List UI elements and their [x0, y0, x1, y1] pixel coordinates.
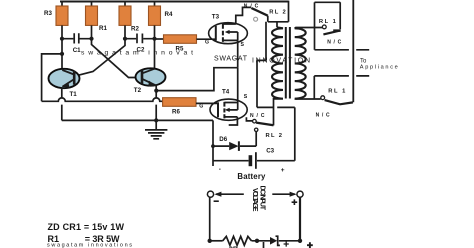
wire: dc loop left vertical	[209, 197, 211, 240]
node: bottom right	[298, 239, 302, 243]
label plus at dc input	[292, 199, 298, 205]
svg-text:R1: R1	[99, 25, 107, 32]
relay RL2 top throw contact	[254, 17, 258, 21]
relay RL1 top blade	[323, 30, 340, 34]
svg-text:T1: T1	[70, 91, 78, 98]
svg-text:S: S	[244, 94, 248, 100]
label bold plus (cut)	[307, 242, 313, 248]
mosfet T3	[209, 23, 248, 44]
svg-text:R3: R3	[44, 10, 52, 17]
mosfet T4	[210, 99, 247, 120]
wire: emitters to mosfet sources link	[156, 68, 237, 91]
svg-text:N/C: N/C	[327, 39, 341, 45]
svg-text:N/C: N/C	[244, 3, 259, 9]
svg-text:R6: R6	[172, 109, 180, 116]
node: R2/C2 junction	[123, 37, 127, 41]
dc input terminal left	[207, 191, 213, 197]
relay RL1 top pole contact	[322, 25, 326, 29]
wire: ground rail	[62, 119, 213, 121]
resistor R6	[163, 98, 196, 107]
node: R4/C2/R5 junction	[152, 37, 156, 41]
svg-text:RL 2: RL 2	[266, 133, 283, 139]
dc input terminal right	[297, 191, 303, 197]
wire: cross-coupling R2 to T1 base	[76, 39, 125, 76]
wire: RL2 top blade end drop	[267, 16, 269, 22]
svg-text:G: G	[199, 103, 203, 109]
svg-text:D6: D6	[219, 136, 227, 143]
svg-text:DC INPUT: DC INPUT	[258, 186, 265, 211]
svg-text:C3: C3	[266, 147, 274, 154]
resistor R5	[155, 38, 164, 40]
node: ground junction	[154, 118, 158, 122]
svg-text:VOLTAGE: VOLTAGE	[251, 188, 258, 212]
svg-text:S: S	[241, 42, 245, 48]
wire: battery right riser	[277, 107, 295, 160]
wire: T4 to RL2 bottom pole	[246, 117, 252, 121]
node: T1 collector feedback junction	[60, 52, 64, 56]
svg-text:N/C: N/C	[316, 112, 330, 118]
wire: supply-to-primary link	[268, 22, 289, 28]
resistor R1	[91, 2, 93, 7]
wire: T1 emitter down through hop	[61, 88, 63, 121]
svg-text:Battery: Battery	[237, 172, 266, 181]
capacitor C1	[62, 38, 92, 40]
dc input arrow right	[272, 193, 295, 195]
node: R1/C1 junction	[89, 37, 93, 41]
wire: RL1 top N/C bridge	[315, 2, 341, 29]
wire: T4 drain step stub	[229, 117, 238, 125]
svg-text:RL 1: RL 1	[328, 89, 346, 95]
relay RL2 bottom blade	[256, 123, 273, 126]
transistor T2	[136, 68, 166, 85]
svg-text:RL 2: RL 2	[269, 10, 286, 16]
wire: T2 emitter down through hop	[155, 86, 157, 121]
relay RL1 bottom pole contact	[321, 96, 325, 100]
node: zigzag left	[208, 239, 212, 243]
wire: cut-off stub below rail	[263, 242, 265, 248]
svg-text:Appliance: Appliance	[360, 65, 398, 71]
svg-text:SWAGAT: SWAGAT	[214, 56, 248, 63]
svg-text:N/C: N/C	[250, 113, 265, 119]
svg-text:T3: T3	[212, 14, 220, 21]
svg-text:ZD CR1 = 15v 1W: ZD CR1 = 15v 1W	[48, 222, 125, 232]
wire: cross-coupling R1 to T2 base	[92, 39, 142, 78]
resistor 3R zigzag	[223, 236, 252, 245]
wire: top supply rail	[60, 1, 289, 3]
svg-text:G: G	[205, 39, 209, 45]
svg-text:T4: T4	[222, 89, 230, 96]
capacitor C2	[125, 38, 155, 40]
wire: R2 column	[124, 25, 126, 39]
label minus at dc input	[214, 200, 219, 202]
wire: gate drive rail with hops	[42, 98, 163, 101]
wire: secondary bottom to RL1 pole	[296, 98, 321, 100]
svg-text:= 3R 5W: = 3R 5W	[85, 234, 120, 244]
resistor R2	[124, 2, 126, 7]
wire: zener to right vertical	[279, 240, 300, 242]
svg-text:R4: R4	[165, 11, 173, 18]
wire: ground rail drop to battery minus	[212, 120, 214, 166]
relay RL2 bottom throw contact	[255, 128, 258, 131]
wire: dc loop bottom rail left	[210, 240, 223, 242]
wire: appliance top lead	[315, 49, 370, 51]
wire: primary bottom vertical	[273, 98, 275, 126]
svg-text:RL 1: RL 1	[319, 19, 337, 25]
wire: RL1 bottom riser	[313, 76, 315, 99]
node: zigzag right	[255, 239, 259, 243]
svg-text:R5: R5	[176, 46, 184, 53]
svg-text:R1: R1	[48, 234, 60, 244]
svg-text:C1: C1	[73, 47, 81, 54]
wire: feedback from T1 collector to gate rail	[42, 54, 62, 101]
wire: to zener	[252, 240, 271, 242]
node: T2 emitter / source-link junction	[154, 89, 158, 93]
wire: R3/T1 collector column	[61, 25, 63, 70]
transistor T1	[49, 69, 80, 88]
wire: throw contact to D6 line	[255, 132, 257, 147]
wire: appliance bottom lead	[314, 75, 369, 77]
transformer primary winding	[272, 27, 283, 98]
svg-text:R2: R2	[131, 26, 139, 33]
wire: supply rail right drop	[288, 1, 290, 22]
wire: R4/T2 collector column	[154, 25, 156, 68]
node: D6 junction	[211, 144, 215, 148]
dc input arrow left	[216, 193, 244, 195]
transformer secondary winding	[295, 28, 306, 99]
wire: output column left	[314, 2, 316, 50]
zener diode	[270, 237, 277, 245]
relay RL1 top contact bar	[333, 29, 340, 31]
wire: dc loop right vertical	[299, 197, 301, 240]
resistor R4	[154, 2, 156, 7]
transformer core	[286, 27, 290, 99]
node: R3/C1 junction	[60, 37, 64, 41]
svg-text:-: -	[219, 166, 221, 173]
relay RL2 top blade	[251, 8, 267, 16]
svg-text:T2: T2	[134, 87, 142, 94]
wire: T3 source down to link	[237, 40, 239, 67]
svg-text:+: +	[281, 167, 285, 174]
wire: primary center tap	[257, 22, 274, 108]
battery / C3 plates	[249, 155, 253, 166]
ground	[155, 120, 157, 129]
relay RL2 bottom pole contact	[253, 119, 257, 123]
wire: secondary top to RL1 pole	[296, 27, 323, 29]
relay RL1 bottom blade	[325, 100, 353, 104]
label small plus	[284, 241, 289, 246]
diode D6	[213, 145, 229, 147]
wire: T4 source up to link	[237, 68, 239, 103]
svg-text:C2: C2	[137, 47, 145, 54]
wire: R1 column	[91, 25, 93, 39]
wire: T3 drain staircase up	[236, 7, 251, 23]
wire: appliance long vertical	[352, 0, 354, 102]
battery rail	[213, 160, 295, 162]
resistor R3	[61, 2, 63, 7]
